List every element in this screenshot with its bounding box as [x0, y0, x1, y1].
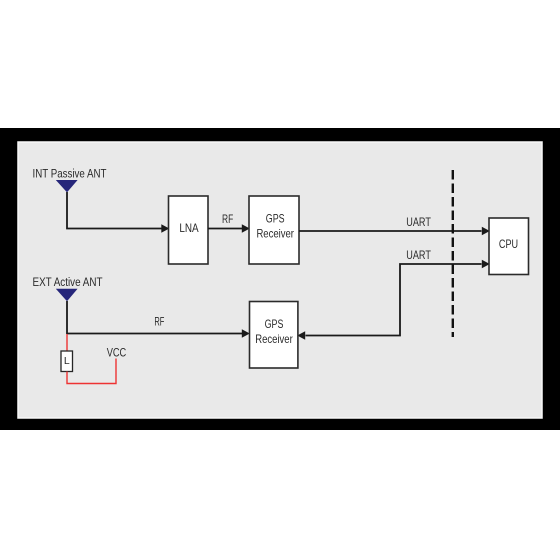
arrowhead into GPS Receiver 1 — [242, 224, 250, 232]
svg-text:INT Passive ANT: INT Passive ANT — [33, 166, 107, 180]
svg-text:Receiver: Receiver — [255, 332, 293, 346]
svg-text:GPS: GPS — [266, 211, 285, 225]
block LNA — [169, 196, 209, 264]
wire ANT1 to LNA — [67, 192, 162, 229]
arrowhead into CPU (UART 1) — [482, 227, 490, 235]
svg-text:RF: RF — [222, 212, 233, 226]
red wire node to inductor L — [66, 334, 68, 351]
antenna ANT1 (passive) — [56, 180, 78, 192]
wire CPU to GPS Receiver 2 (UART 2) — [306, 264, 482, 336]
block CPU — [489, 218, 529, 275]
svg-text:LNA: LNA — [179, 221, 198, 235]
block GPS Receiver 2 — [250, 302, 298, 369]
black frame band — [0, 128, 560, 430]
wire LNA to GPS Receiver 1 — [208, 228, 242, 230]
svg-text:VCC: VCC — [107, 346, 127, 360]
wire GPS Receiver 1 to CPU (UART) — [299, 230, 482, 232]
svg-text:UART: UART — [406, 215, 431, 229]
dashed partition line — [452, 170, 454, 337]
inductor L — [61, 351, 73, 372]
svg-text:RF: RF — [154, 315, 164, 329]
arrowhead into CPU (UART 2) — [482, 260, 490, 268]
svg-text:GPS: GPS — [265, 317, 284, 331]
svg-text:UART: UART — [406, 248, 431, 262]
block GPS Receiver 1 — [249, 196, 299, 264]
wire RF to GPS Receiver 2 — [67, 333, 242, 335]
svg-text:CPU: CPU — [499, 237, 518, 251]
svg-text:Receiver: Receiver — [256, 226, 294, 240]
arrowhead into GPS Receiver 2 (left side) — [242, 329, 250, 337]
gray diagram plate — [18, 142, 542, 418]
svg-text:L: L — [64, 355, 70, 367]
antenna ANT2 (active) — [56, 289, 78, 301]
svg-text:EXT Active ANT: EXT Active ANT — [33, 275, 103, 289]
arrowhead into GPS Receiver 2 (right side) — [297, 331, 305, 339]
red wire L to VCC — [67, 359, 116, 384]
wire ANT2 down to RF node — [66, 301, 68, 334]
arrowhead into LNA — [161, 224, 169, 232]
